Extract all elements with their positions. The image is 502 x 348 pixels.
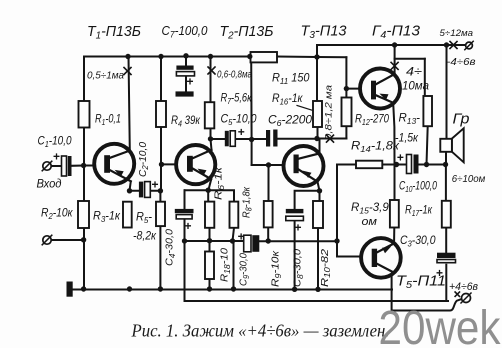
- svg-text:Гр: Гр: [453, 111, 470, 128]
- svg-text:R3-1к: R3-1к: [93, 211, 121, 225]
- svg-text:10ма: 10ма: [402, 81, 429, 93]
- svg-text:R8-1,8к: R8-1,8к: [240, 186, 253, 218]
- svg-text:Г4-П13: Г4-П13: [372, 24, 420, 42]
- svg-text:С4-30,0: С4-30,0: [164, 229, 177, 266]
- svg-text:С9-30,0: С9-30,0: [238, 253, 251, 286]
- svg-text:Т5-П11: Т5-П11: [396, 274, 446, 292]
- svg-text:+: +: [187, 75, 194, 89]
- svg-text:+4÷6в: +4÷6в: [449, 281, 478, 293]
- svg-text:+: +: [152, 178, 159, 192]
- svg-text:0,8÷1,2 ма: 0,8÷1,2 ма: [324, 85, 335, 140]
- svg-text:+: +: [295, 221, 302, 235]
- svg-text:ом: ом: [362, 216, 378, 228]
- svg-text:С1-10,0: С1-10,0: [38, 136, 73, 150]
- svg-text:0,5÷1ма: 0,5÷1ма: [87, 70, 124, 82]
- svg-text:R4 39к: R4 39к: [171, 115, 200, 129]
- svg-text:Вход: Вход: [37, 179, 62, 191]
- svg-text:R18-10: R18-10: [219, 248, 232, 282]
- svg-text:R14-1,8к: R14-1,8к: [351, 141, 400, 155]
- svg-text:С2-10,0: С2-10,0: [137, 142, 150, 177]
- svg-text:R15-3,9.: R15-3,9.: [351, 202, 392, 216]
- svg-text:R6-1к: R6-1к: [213, 166, 226, 200]
- svg-text:Рис. 1. Зажим «+4÷6в» — заземл: Рис. 1. Зажим «+4÷6в» — заземлен.: [131, 321, 390, 341]
- svg-text:6÷10ом: 6÷10ом: [452, 173, 486, 185]
- svg-text:С10-100,0: С10-100,0: [399, 181, 437, 195]
- svg-text:0,6-0,8ма: 0,6-0,8ма: [217, 69, 252, 81]
- svg-text:R10-82: R10-82: [319, 249, 332, 287]
- svg-text:С5-10,0: С5-10,0: [221, 114, 258, 128]
- svg-text:R5-: R5-: [136, 212, 152, 226]
- svg-text:-8,2к: -8,2к: [133, 231, 157, 243]
- svg-text:+: +: [185, 219, 192, 233]
- svg-text:R11 150: R11 150: [272, 73, 310, 87]
- svg-text:R7-5,6к: R7-5,6к: [221, 93, 252, 107]
- svg-text:5÷12ма: 5÷12ма: [440, 28, 474, 39]
- svg-text:Т1-П13Б: Т1-П13Б: [87, 24, 141, 42]
- svg-text:+: +: [238, 125, 245, 139]
- svg-text:R2-10к: R2-10к: [41, 208, 73, 222]
- svg-text:+: +: [238, 229, 245, 243]
- svg-text:С3-30,0: С3-30,0: [400, 235, 436, 249]
- svg-text:4÷: 4÷: [406, 67, 423, 79]
- svg-text:20wek: 20wek: [379, 301, 502, 348]
- svg-text:С7-100,0: С7-100,0: [162, 23, 209, 41]
- svg-text:R13-: R13-: [399, 113, 421, 127]
- svg-text:С6-2200: С6-2200: [268, 115, 313, 129]
- svg-text:R16-1к: R16-1к: [272, 93, 303, 107]
- svg-text:Т2-П13Б: Т2-П13Б: [220, 24, 274, 42]
- svg-text:Т3-П13: Т3-П13: [301, 24, 347, 42]
- svg-text:R12-270: R12-270: [355, 114, 389, 128]
- svg-text:-4÷6в: -4÷6в: [447, 56, 477, 68]
- svg-text:R1-0,1: R1-0,1: [95, 114, 121, 128]
- svg-text:R9-10к: R9-10к: [270, 250, 283, 287]
- svg-text:С8-30,0: С8-30,0: [292, 249, 305, 287]
- svg-text:R17-1к: R17-1к: [405, 205, 432, 219]
- svg-text:+: +: [53, 150, 60, 164]
